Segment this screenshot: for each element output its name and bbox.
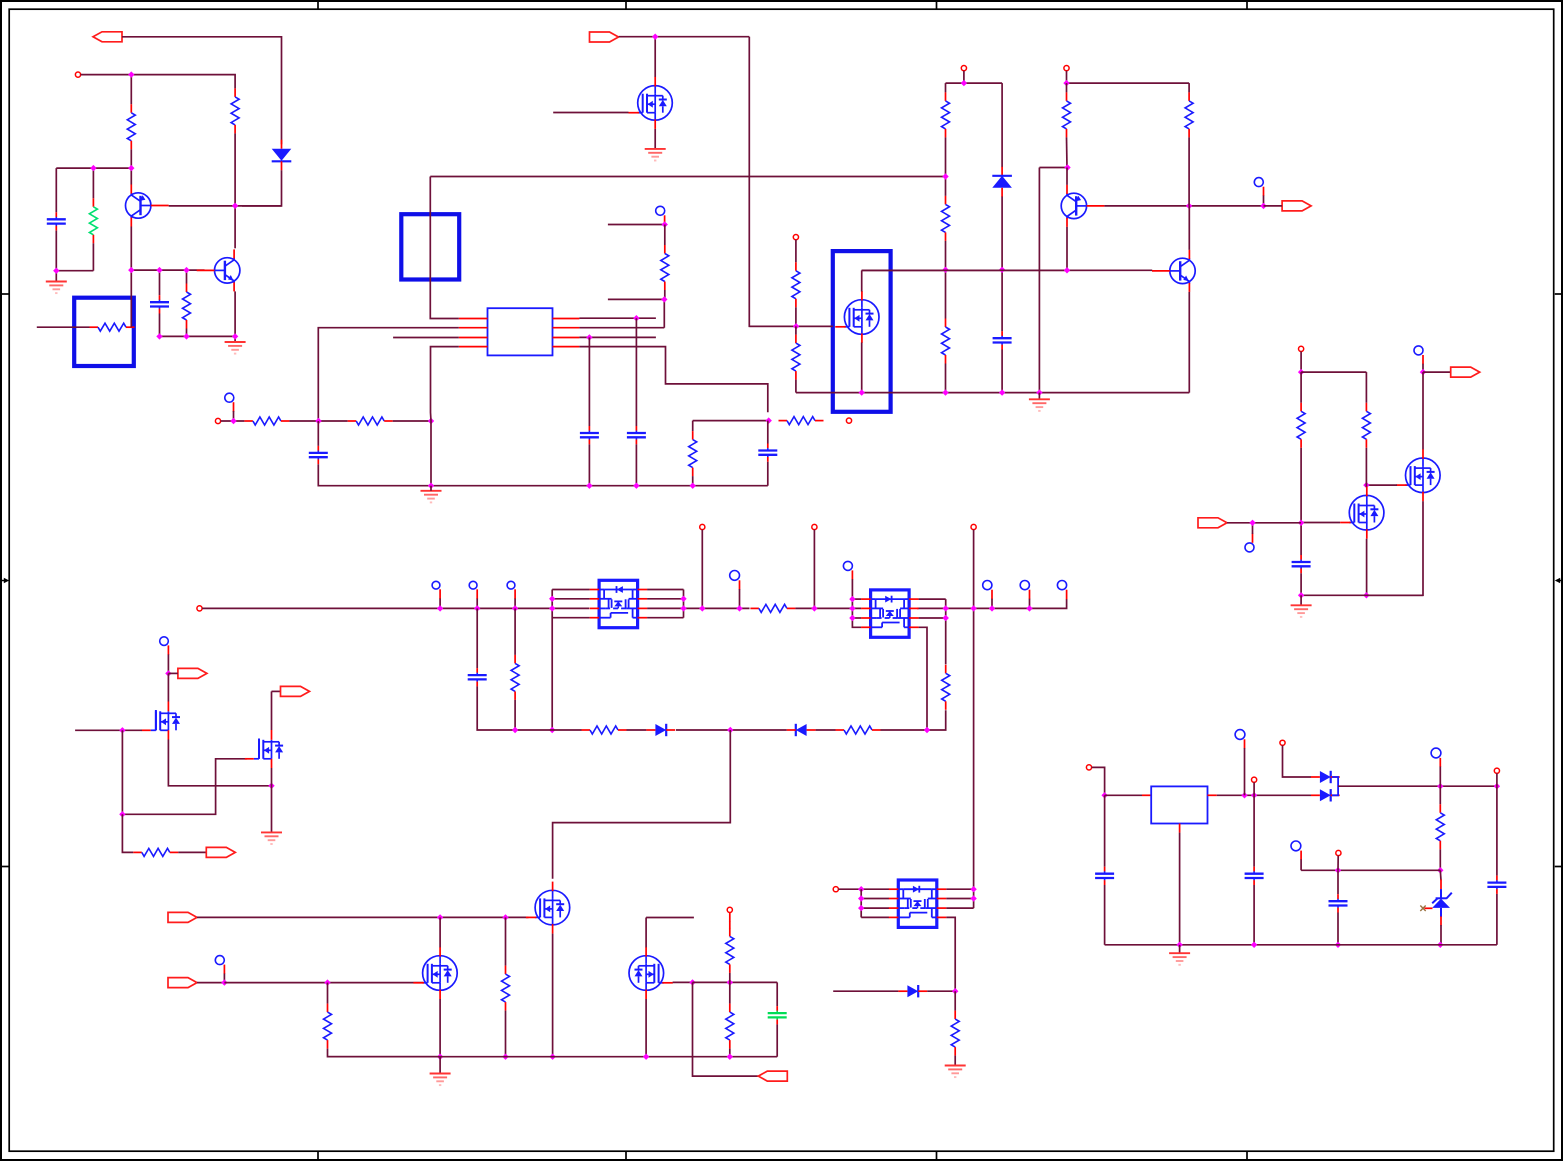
wire M8 source — [271, 768, 273, 832]
wire U5 r2 — [946, 898, 973, 900]
wire to R4 — [664, 225, 666, 246]
pin circle B1 — [656, 206, 665, 215]
wire M1 drain — [654, 37, 656, 77]
red pin B18 — [1300, 851, 1302, 860]
junction — [633, 315, 639, 321]
wire R21 to corner — [881, 710, 946, 730]
ground G1 — [46, 282, 67, 294]
wire B17 down — [1439, 767, 1441, 787]
capacitor C12 — [1496, 876, 1498, 881]
wire row 1056 — [328, 1056, 778, 1058]
ground G10 — [1169, 953, 1190, 965]
pin circle B13 — [1057, 581, 1066, 590]
pin circle P16 — [1280, 740, 1285, 745]
pin circle B18 — [1291, 841, 1301, 851]
wire M10 source — [439, 999, 441, 1057]
junction — [727, 727, 733, 733]
wire row 982 right — [693, 981, 778, 983]
junction — [643, 1054, 649, 1060]
junction — [1363, 482, 1369, 488]
junction — [1026, 605, 1032, 611]
wire M1 gate — [553, 112, 628, 114]
border tick top 2 — [625, 1, 627, 9]
wire Q1 collector down — [1066, 227, 1068, 270]
zener diode DZ1 — [1440, 880, 1442, 890]
resistor R26 — [729, 928, 731, 937]
border tick top 4 — [1246, 1, 1248, 9]
wire M7 drain — [167, 673, 169, 701]
wire port to M1/right — [619, 36, 750, 38]
junction — [727, 1054, 733, 1060]
wire gnd stub G9 — [1300, 595, 1302, 605]
wire D5 to node — [927, 990, 955, 992]
capacitor C10 (green) — [776, 1006, 778, 1011]
wire node431 down — [430, 413, 433, 486]
pin circle P7 — [1299, 346, 1304, 351]
wire gate row M9 — [197, 916, 529, 918]
dual-mosfet block U4 — [871, 590, 910, 637]
wire R10 top — [795, 326, 797, 334]
wire P6 down — [1066, 71, 1068, 83]
wire C4 bottom — [588, 444, 590, 485]
wire U4 right col — [945, 599, 947, 664]
dual-mosfet block U3 — [599, 580, 638, 627]
wire R26 bottom — [729, 973, 731, 983]
wire D4 to R21 — [816, 729, 836, 731]
wire M2 drain up — [861, 270, 863, 291]
wire U1 pin4 right — [579, 347, 767, 413]
wire P10 down — [813, 530, 815, 609]
wire row167 — [1039, 167, 1067, 169]
junction — [232, 333, 238, 339]
wire to port A8 — [693, 982, 759, 1076]
wire M5 gate row — [1366, 484, 1397, 486]
junction — [502, 1054, 508, 1060]
wire R3 top — [186, 270, 188, 283]
junction — [970, 895, 976, 901]
junction — [1437, 867, 1443, 873]
junction — [989, 605, 995, 611]
junction — [999, 389, 1005, 395]
wire M5 source — [1366, 501, 1423, 595]
wire D3 to D4 — [676, 729, 787, 731]
junction — [1251, 792, 1257, 798]
wire B12 down — [1029, 599, 1031, 609]
controller IC U1 — [488, 308, 553, 355]
wire U5 r4 — [946, 917, 955, 991]
wire green R bottom — [92, 243, 94, 270]
wire U1 pin1 to row176 — [430, 177, 459, 319]
wire green cap col — [776, 982, 778, 1006]
wire R28 to gnd — [954, 1056, 956, 1065]
wire R25 top — [505, 917, 507, 965]
wire U5 left col — [860, 889, 862, 917]
wire B2 to row — [233, 411, 235, 421]
junction — [652, 34, 658, 40]
wire C12 col — [1496, 786, 1498, 875]
red pin U6 bottom — [1179, 824, 1181, 833]
junction — [268, 783, 274, 789]
wire col1366 a — [1365, 372, 1367, 403]
wire gnd row — [431, 485, 768, 487]
wire Q2 collector — [1188, 206, 1190, 250]
wire thermistor left — [37, 326, 90, 328]
wire col1002 c — [1001, 350, 1003, 393]
red pin U1 right — [553, 327, 580, 329]
wire col945 c — [945, 241, 947, 319]
pin circle B3 — [1254, 178, 1263, 187]
wire col945 a — [945, 83, 947, 92]
wire C6 bottom — [767, 462, 769, 486]
junction — [943, 615, 949, 621]
wire R27 top — [729, 982, 731, 1003]
capacitor C14 — [1253, 867, 1255, 872]
resistor R15 — [1188, 92, 1190, 101]
port arrow right A5 — [206, 847, 235, 857]
resistor R27 — [729, 1004, 731, 1013]
port arrow right A3 — [178, 668, 207, 678]
resistor R5 — [244, 420, 253, 422]
port arrow left A8 — [758, 1071, 787, 1081]
junction — [128, 267, 134, 273]
pin circle P11 — [971, 524, 976, 529]
wire P2 to R5 — [221, 420, 245, 422]
ground G7 — [430, 1074, 451, 1086]
red pin B9 — [739, 580, 741, 589]
capacitor C3 — [317, 446, 319, 451]
wire P14 wire — [1092, 767, 1105, 795]
junction — [156, 333, 162, 339]
wire col1067 a — [1066, 83, 1068, 92]
wire row421 segB — [693, 420, 769, 422]
pin circle P6 — [1064, 66, 1069, 71]
wire C13 col — [1104, 795, 1106, 866]
wire C5 bottom — [635, 444, 637, 485]
junction — [858, 895, 864, 901]
wire zener bottom — [1439, 925, 1442, 945]
wire col1366 b — [1365, 448, 1367, 487]
wire R2 to Q4 collector — [234, 133, 236, 248]
mosfet M5 — [1406, 458, 1441, 493]
red pin U6 left — [1142, 794, 1151, 796]
red pin U6 right — [1208, 794, 1217, 796]
red pin B8 — [514, 589, 516, 599]
port arrow right M1 — [590, 32, 619, 42]
mosfet M6 — [1349, 495, 1384, 530]
red pin B2 — [233, 402, 235, 412]
wire C5 column — [635, 318, 637, 426]
capacitor C5 — [635, 426, 637, 431]
wire col1189 b — [1188, 137, 1190, 206]
capacitor C2 — [159, 295, 161, 300]
red pin B12 — [1029, 590, 1031, 600]
wire B10 down — [852, 579, 861, 627]
wire C11 col — [1337, 870, 1339, 894]
junction — [1241, 792, 1247, 798]
red pin U1 right — [553, 346, 580, 348]
capacitor C4 — [588, 426, 590, 431]
pin circle P5 — [961, 66, 966, 71]
junction — [793, 323, 799, 329]
mosfet M11 — [629, 956, 664, 991]
resistor R20 — [582, 729, 591, 731]
wire R4 bottom — [663, 290, 666, 299]
mosfet M2 — [844, 300, 879, 335]
wire row 83 left — [946, 82, 1003, 84]
junction — [1260, 203, 1266, 209]
wire C1 to gnd row — [56, 231, 93, 271]
wire C3 top — [317, 421, 319, 446]
junction — [1249, 520, 1255, 526]
junction — [549, 596, 555, 602]
wire U6 gnd col — [1179, 833, 1181, 945]
junction — [633, 483, 639, 489]
wire bus main — [202, 607, 589, 609]
pin circle P17 — [1494, 768, 1499, 773]
wire C12 bottom — [1496, 894, 1498, 945]
resistor R3 — [186, 284, 188, 293]
wire segB corner — [692, 421, 694, 432]
wire M1 source — [654, 129, 656, 149]
wire U1 pin1 right stub — [579, 317, 656, 319]
capacitor C1 — [55, 212, 57, 217]
wire P13 to U5 — [838, 888, 889, 890]
red pin B4 — [1422, 355, 1424, 364]
red pin U1 right — [553, 337, 580, 339]
wire M9 source — [552, 934, 554, 1057]
junction — [428, 418, 434, 424]
resistor R29 — [1439, 804, 1441, 813]
pin circle B10 — [843, 561, 852, 570]
wire U3 l2 — [552, 598, 589, 600]
junction — [549, 1054, 555, 1060]
resistor R12 — [945, 196, 947, 205]
junction — [690, 483, 696, 489]
border tick bottom 3 — [936, 1151, 938, 1159]
wire B4 down — [1422, 364, 1424, 372]
junction — [1335, 867, 1341, 873]
resistor R4 — [664, 245, 666, 254]
junction — [128, 71, 134, 77]
wire col1189 a — [1188, 83, 1190, 92]
wire row 870 — [1301, 869, 1440, 871]
mosfet M1 — [638, 86, 673, 121]
wire M5 drain col — [1422, 372, 1424, 449]
wire bus right — [917, 599, 1067, 608]
capacitor C6 — [767, 444, 769, 449]
resistor R25 — [505, 966, 507, 975]
wire row 595 — [1301, 594, 1423, 596]
red pin B10 — [851, 570, 853, 579]
junction — [437, 605, 443, 611]
wire P18 down — [1337, 856, 1339, 871]
junction — [1298, 369, 1304, 375]
wire P15 down — [1253, 782, 1255, 795]
resistor R23 — [133, 851, 142, 853]
wire U4 r4 — [919, 627, 927, 730]
junction — [924, 727, 930, 733]
resistor RG1 (green) — [92, 198, 94, 207]
wire B3 down — [1263, 196, 1265, 206]
resistor R19 — [514, 655, 516, 664]
wire row 83 right — [1067, 82, 1190, 84]
border tick top 3 — [936, 1, 938, 9]
border tick right 2 — [1555, 866, 1563, 868]
wire U1 pin2 right — [579, 327, 664, 329]
wire row 392 — [796, 392, 1189, 394]
wire B16 down — [1244, 748, 1246, 795]
pin circle B9 — [730, 571, 740, 581]
wire U1 pin2 left — [318, 328, 459, 413]
junction — [549, 605, 555, 611]
junction — [811, 605, 817, 611]
wire row 270 — [131, 269, 204, 271]
wire col1002 b — [1001, 197, 1003, 332]
junction — [512, 727, 518, 733]
wire B18 down — [1300, 859, 1302, 870]
port arrow left top — [93, 32, 122, 42]
junction — [586, 334, 592, 340]
wire C4 column — [588, 337, 590, 426]
junction — [324, 979, 330, 985]
junction — [680, 596, 686, 602]
resistor R6 — [348, 420, 357, 422]
border arrow left — [1, 578, 9, 584]
wire bus mid2 — [795, 607, 861, 609]
wire U4 r3 — [919, 617, 946, 619]
regulator IC U6 — [1151, 786, 1207, 823]
red pin B7 — [476, 589, 478, 599]
wire R20 to D3 — [627, 729, 647, 731]
wire gate node row — [749, 325, 833, 327]
junction — [232, 203, 238, 209]
wire R25 bottom — [505, 1011, 507, 1057]
wire U1 pin3 right stub — [579, 336, 656, 338]
wire B6 down — [439, 599, 441, 609]
wire row 372 — [1301, 371, 1366, 373]
ground G2 — [225, 342, 246, 354]
red pin U1 left — [459, 327, 488, 329]
wire D1 to node row — [242, 170, 282, 206]
wire R19 bottom — [514, 700, 516, 730]
wire row 336 — [160, 335, 236, 337]
junction — [1101, 792, 1107, 798]
empty component box U2 — [401, 214, 459, 279]
wire R6 to node — [393, 420, 431, 422]
wire R10 bottom — [795, 380, 797, 393]
resistor R10 — [795, 335, 797, 344]
wire B15 down — [223, 974, 225, 983]
junction — [661, 296, 667, 302]
port arrow right A7 — [168, 978, 197, 988]
wire col1039 — [1038, 168, 1040, 393]
junction — [183, 333, 189, 339]
red pin U1 left — [459, 318, 488, 320]
wire C11 bottom — [1337, 913, 1339, 945]
junction — [970, 886, 976, 892]
wire C2 top — [159, 270, 161, 295]
wire B7 down — [476, 599, 478, 609]
wire P17 down — [1496, 773, 1498, 786]
wire R3 bottom — [186, 329, 188, 337]
wire reg out row — [1338, 785, 1497, 787]
junction — [221, 979, 227, 985]
wire C10 bottom — [776, 1024, 778, 1056]
mosfet M7 — [155, 711, 157, 730]
wire to port — [1264, 205, 1283, 207]
junction — [689, 979, 695, 985]
red pin B11 — [991, 590, 993, 600]
wire row 168 — [56, 167, 131, 169]
wire B9 down — [739, 589, 741, 608]
pin circle P1 — [75, 72, 80, 77]
wire R23 to port — [178, 851, 206, 853]
wire stub y299 — [608, 299, 664, 327]
wire U3 l4 — [552, 617, 589, 619]
wire R24 top — [327, 983, 329, 1004]
pin circle P18 — [1336, 850, 1341, 855]
wire to U6 — [1105, 794, 1142, 796]
wire R1 to row 168 — [130, 149, 132, 168]
resistor R9 — [795, 262, 797, 271]
wire R5 to node — [289, 420, 318, 422]
thermistor box TH1 — [74, 298, 134, 366]
wire zener top — [1439, 870, 1442, 880]
wire U5 r3 — [946, 907, 973, 909]
junction — [859, 389, 865, 395]
wire Q1 base row — [1104, 205, 1263, 207]
wire col945 b — [945, 137, 947, 196]
wire U4 l1 — [852, 598, 861, 600]
mosfet M9 — [535, 890, 570, 925]
port arrow right M5D — [1451, 367, 1480, 377]
junction — [1420, 369, 1426, 375]
junction — [942, 173, 948, 179]
wire U6 out row — [1217, 794, 1311, 796]
wire U3 r4 — [647, 617, 683, 619]
junction — [961, 80, 967, 86]
wire P9 down — [701, 530, 703, 609]
capacitor C13 — [1104, 867, 1106, 872]
junction — [999, 267, 1005, 273]
wire U3 left col — [552, 589, 589, 591]
junction — [90, 165, 96, 171]
wire gate net path — [122, 730, 246, 814]
pin circle B5 — [1245, 543, 1254, 552]
junction — [1251, 942, 1257, 948]
wire U3 r1 — [647, 589, 683, 591]
component box M2 — [833, 251, 891, 412]
junction — [1064, 267, 1070, 273]
resistor R17 — [1300, 403, 1302, 412]
wire M9 drain path — [553, 730, 731, 879]
red pin U1 left — [459, 337, 488, 339]
border tick top 1 — [317, 1, 319, 9]
border tick bottom 2 — [625, 1151, 627, 1159]
port arrow right Q1B — [1282, 201, 1311, 211]
junction — [315, 418, 321, 424]
junction — [849, 615, 855, 621]
wire gnd row bottom — [1105, 944, 1497, 946]
junction — [165, 670, 171, 676]
wire gnd stub G10 — [1179, 945, 1181, 953]
capacitor C11 — [1337, 894, 1339, 899]
diode D1 — [281, 140, 283, 149]
red pin B5 — [1252, 534, 1254, 543]
junction — [119, 811, 125, 817]
junction — [1494, 783, 1500, 789]
wire P1 row — [81, 75, 236, 89]
